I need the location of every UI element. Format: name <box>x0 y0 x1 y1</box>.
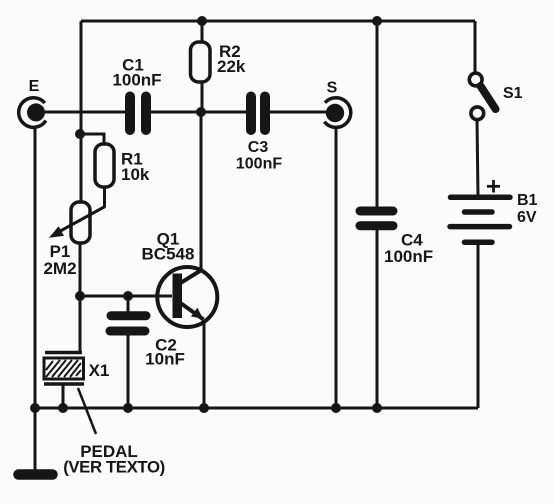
label Q1 <box>142 230 195 264</box>
svg-text:X1: X1 <box>89 361 110 380</box>
wire battery minus to rail <box>477 244 480 408</box>
wire base <box>80 295 172 298</box>
connector S <box>324 80 350 128</box>
wire C4 upper <box>376 21 379 209</box>
svg-text:BC548: BC548 <box>142 245 195 264</box>
svg-text:6V: 6V <box>517 209 537 226</box>
connector E <box>19 78 46 127</box>
battery B1 <box>450 197 510 242</box>
wire E to C1 <box>36 111 125 114</box>
wire C3 to S <box>270 111 330 114</box>
resistor R2 <box>191 42 211 82</box>
wire bottom ground rail <box>35 407 478 410</box>
svg-text:100nF: 100nF <box>112 71 161 90</box>
label PEDAL <box>63 442 165 477</box>
wire X1 bottom lead <box>62 385 65 408</box>
transistor Q1 <box>157 267 217 327</box>
label R2 <box>217 42 246 76</box>
svg-text:2M2: 2M2 <box>43 259 76 278</box>
label P1 <box>43 242 76 278</box>
wire node to R1 <box>80 134 104 145</box>
ground <box>19 469 53 480</box>
svg-text:22k: 22k <box>217 57 246 76</box>
wire to S1 <box>474 21 477 74</box>
svg-text:B1: B1 <box>517 192 538 209</box>
svg-text:100nF: 100nF <box>384 247 433 266</box>
wire top supply rail <box>81 20 475 23</box>
wire S1 to battery plus <box>477 119 478 196</box>
wire C4 lower <box>376 228 379 408</box>
svg-text:100nF: 100nF <box>236 156 282 173</box>
wire C2 drop <box>127 334 130 408</box>
wire P1 to base node <box>79 243 82 296</box>
pedal leader line <box>78 388 96 434</box>
label R1 <box>121 150 150 185</box>
wire node to X1 top <box>79 296 82 353</box>
capacitor C4 <box>360 211 393 226</box>
wire E ring drop <box>34 127 37 408</box>
label B1 <box>517 192 538 226</box>
piezo transducer X1 <box>44 353 109 385</box>
label C2 <box>145 336 185 369</box>
wire ground drop <box>34 408 37 470</box>
capacitor C3 <box>251 97 265 131</box>
wire R2 top stub <box>201 21 204 43</box>
label C1 <box>112 56 161 90</box>
wire R2 bottom to node <box>201 81 204 112</box>
svg-text:S1: S1 <box>503 85 523 102</box>
wire collector <box>200 112 203 268</box>
label C3 <box>236 139 282 173</box>
capacitor C1 <box>130 97 146 131</box>
wire left branch down to P1 <box>80 21 83 203</box>
svg-text:(VER TEXTO): (VER TEXTO) <box>63 458 165 477</box>
wire S drop <box>335 128 338 408</box>
svg-text:E: E <box>29 78 40 95</box>
potentiometer P1 <box>49 187 105 243</box>
svg-text:C3: C3 <box>248 139 269 156</box>
label C4 <box>384 231 433 267</box>
wire C1 to C3 <box>151 111 246 114</box>
capacitor C2 <box>110 316 146 331</box>
svg-text:10nF: 10nF <box>145 350 185 369</box>
wire C2 top stub <box>127 296 130 313</box>
svg-text:10k: 10k <box>121 165 150 184</box>
battery plus sign <box>487 180 500 193</box>
switch S1 <box>469 73 522 120</box>
wire emitter drop <box>203 320 206 408</box>
svg-text:S: S <box>327 80 338 97</box>
resistor R1 <box>95 144 114 187</box>
